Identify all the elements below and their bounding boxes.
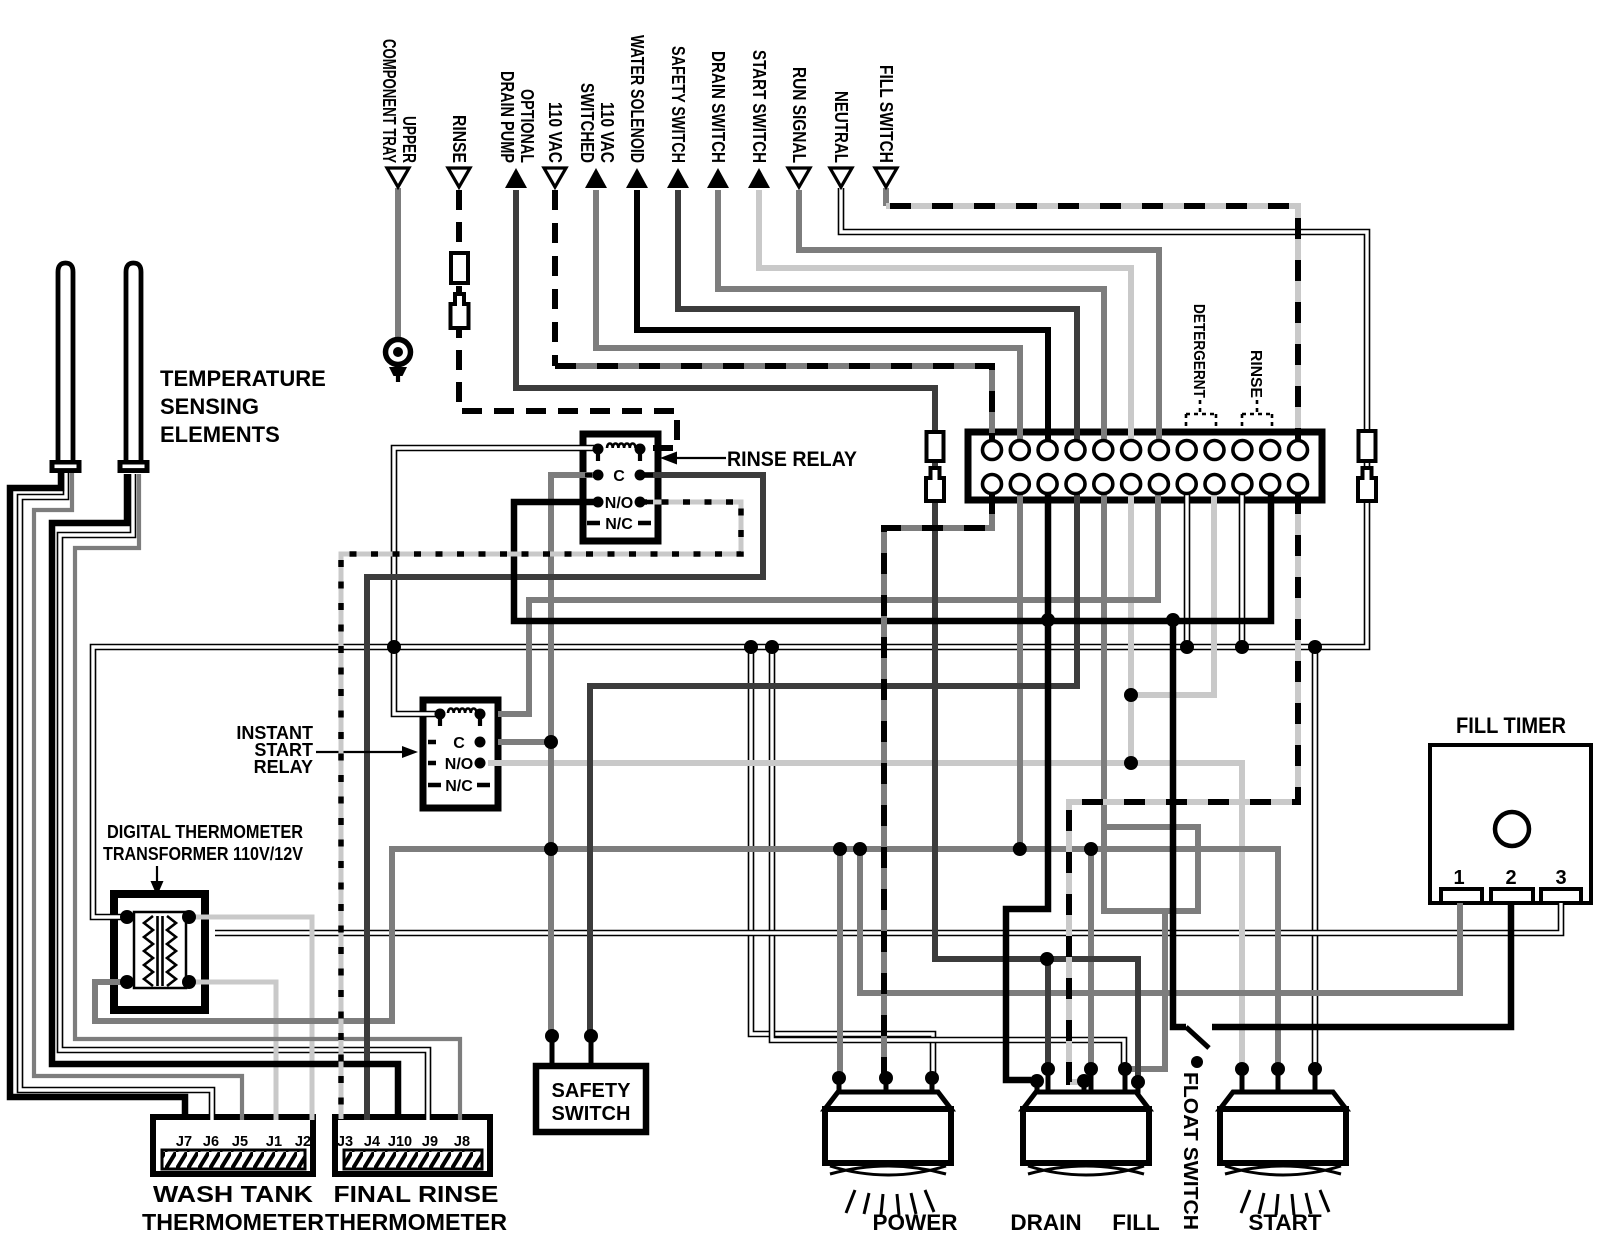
svg-text:RINSE: RINSE [1247,350,1264,398]
svg-text:J3: J3 [337,1134,353,1150]
svg-text:J7: J7 [176,1134,192,1150]
svg-text:3: 3 [1555,867,1566,889]
svg-text:DRAIN PUMP: DRAIN PUMP [497,71,518,163]
svg-text:DRAIN SWITCH: DRAIN SWITCH [708,51,729,163]
svg-text:1: 1 [1453,867,1464,889]
svg-text:FILL TIMER: FILL TIMER [1456,713,1566,738]
svg-text:FLOAT SWITCH: FLOAT SWITCH [1179,1072,1201,1230]
svg-text:C: C [453,735,465,752]
svg-text:SENSING: SENSING [160,394,259,419]
svg-text:SWITCHED: SWITCHED [577,83,598,163]
svg-text:J8: J8 [454,1134,470,1150]
svg-text:THERMOMETER: THERMOMETER [142,1209,324,1235]
svg-text:RUN SIGNAL: RUN SIGNAL [789,67,810,163]
svg-text:J6: J6 [203,1134,219,1150]
svg-text:FILL SWITCH: FILL SWITCH [876,65,897,163]
svg-text:J4: J4 [364,1134,380,1150]
svg-text:UPPER: UPPER [399,116,420,163]
svg-text:RELAY: RELAY [254,757,313,777]
svg-text:RINSE: RINSE [449,115,470,163]
svg-text:TRANSFORMER 110V/12V: TRANSFORMER 110V/12V [103,843,304,864]
svg-text:TEMPERATURE: TEMPERATURE [160,366,326,391]
svg-text:N/C: N/C [445,778,473,795]
svg-text:110 VAC: 110 VAC [545,102,566,163]
svg-text:J1: J1 [266,1134,282,1150]
svg-text:WATER SOLENOID: WATER SOLENOID [627,35,648,163]
svg-text:COMPONENT TRAY: COMPONENT TRAY [379,39,400,163]
svg-text:NEUTRAL: NEUTRAL [831,91,852,163]
svg-text:START SWITCH: START SWITCH [749,50,770,163]
svg-text:POWER: POWER [872,1210,957,1235]
svg-text:2: 2 [1505,867,1516,889]
svg-text:SWITCH: SWITCH [552,1103,631,1125]
svg-text:J5: J5 [232,1134,248,1150]
svg-text:ELEMENTS: ELEMENTS [160,422,280,447]
svg-text:RINSE RELAY: RINSE RELAY [727,447,857,471]
svg-text:WASH TANK: WASH TANK [153,1181,313,1207]
svg-text:110 VAC: 110 VAC [597,102,618,163]
svg-text:N/O: N/O [445,756,473,773]
svg-text:SAFETY: SAFETY [552,1080,632,1102]
svg-text:THERMOMETER: THERMOMETER [325,1209,507,1235]
svg-text:OPTIONAL: OPTIONAL [517,89,538,163]
svg-text:DIGITAL THERMOMETER: DIGITAL THERMOMETER [107,821,303,842]
svg-text:SAFETY SWITCH: SAFETY SWITCH [668,46,689,163]
svg-text:START: START [1248,1210,1322,1235]
svg-text:FILL: FILL [1112,1210,1160,1235]
svg-text:N/C: N/C [605,516,633,533]
svg-text:FINAL RINSE: FINAL RINSE [334,1181,499,1207]
svg-text:J9: J9 [422,1134,438,1150]
svg-text:J10: J10 [388,1134,412,1150]
svg-text:J2: J2 [295,1134,311,1150]
svg-text:N/O: N/O [605,495,633,512]
svg-text:C: C [613,468,625,485]
svg-text:DRAIN: DRAIN [1010,1210,1081,1235]
svg-text:DETERGERNT: DETERGERNT [1190,304,1207,398]
